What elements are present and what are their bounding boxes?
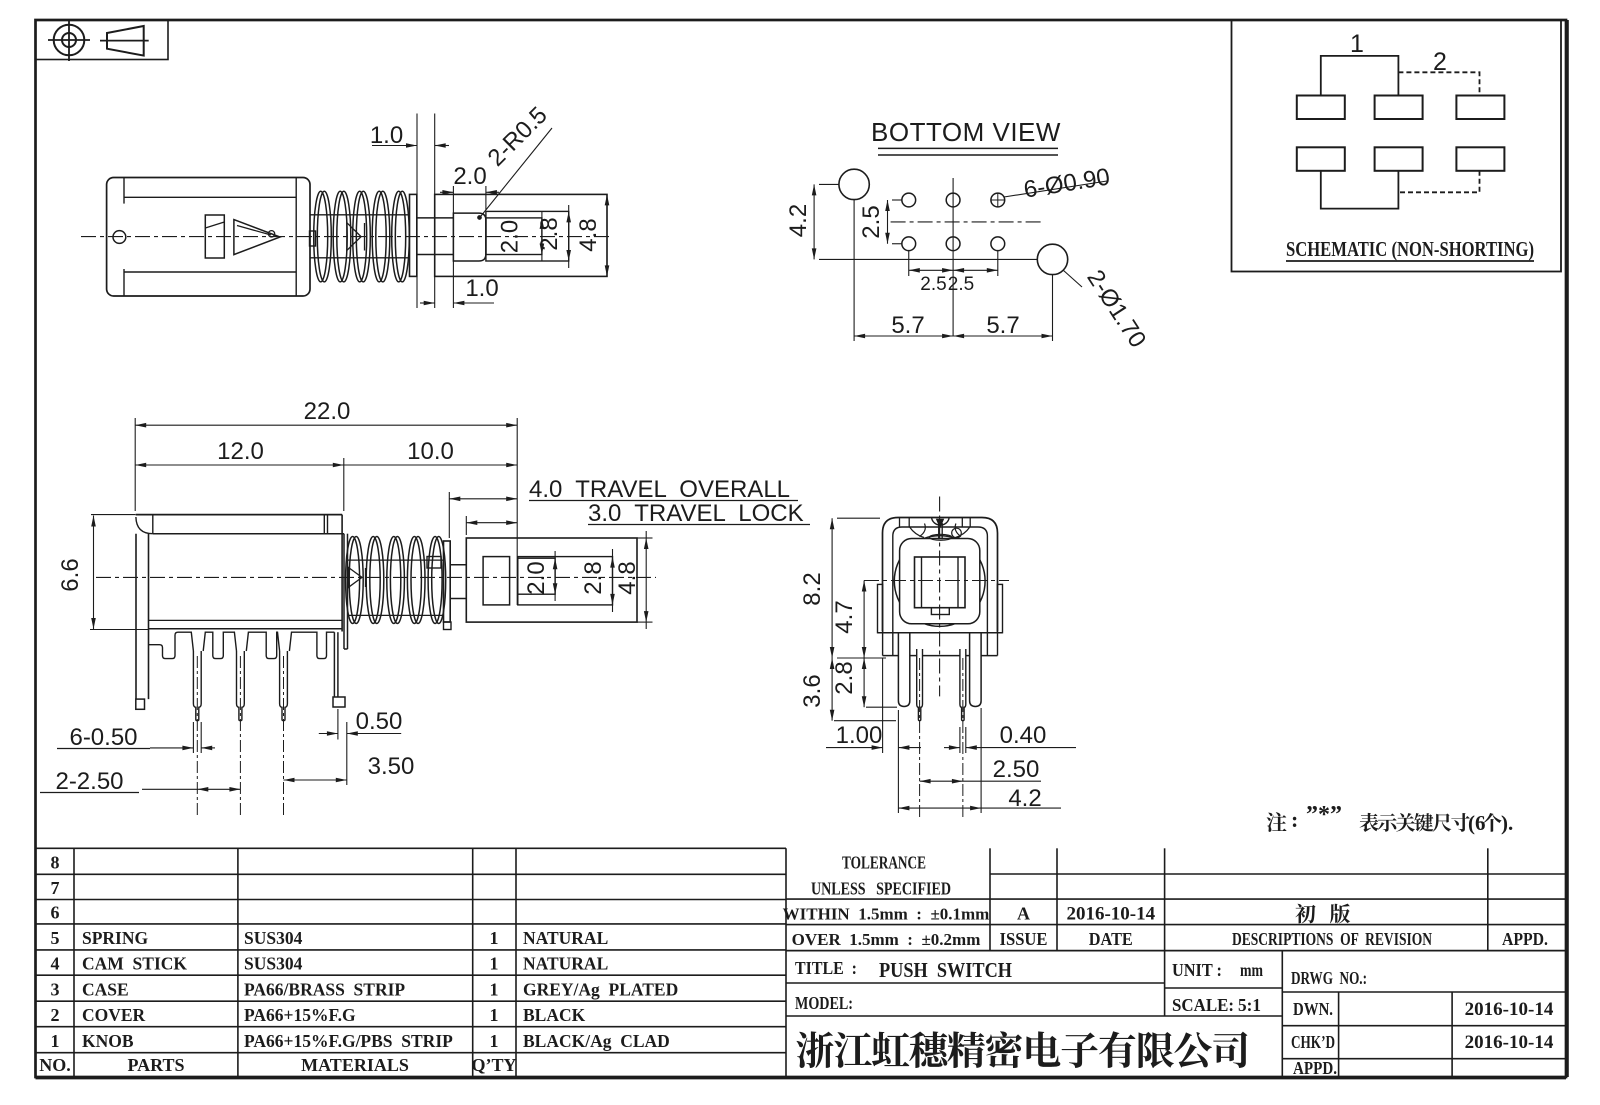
svg-text:Q’TY: Q’TY — [472, 1055, 517, 1075]
svg-text:8: 8 — [51, 853, 60, 873]
front view: knob bottom tab — [931, 608, 949, 615]
svg-text:NO.: NO. — [39, 1055, 71, 1075]
top view: knob tip (rounded) — [453, 213, 486, 261]
svg-text:3.0 TRAVEL LOCK: 3.0 TRAVEL LOCK — [588, 500, 804, 527]
top view: knob slot rect 2.8 — [486, 211, 569, 261]
front view: left leg — [898, 633, 909, 707]
front view: left pin — [917, 649, 923, 721]
main view: spring coils — [346, 537, 360, 624]
svg-text:22.0: 22.0 — [304, 398, 351, 425]
svg-text:4.8: 4.8 — [614, 561, 641, 594]
front view: base plate — [878, 632, 1003, 634]
front view: spring coil circle — [894, 536, 985, 627]
svg-text:GREY/Ag PLATED: GREY/Ag PLATED — [523, 980, 678, 1000]
svg-text:2.8: 2.8 — [536, 217, 563, 250]
svg-text:7: 7 — [51, 878, 60, 898]
svg-text:APPD.: APPD. — [1502, 929, 1548, 949]
svg-text:1: 1 — [490, 1031, 499, 1051]
front view: cam washer disc — [929, 534, 951, 540]
svg-text:1: 1 — [490, 928, 499, 948]
svg-text:PA66+15%F.G/PBS STRIP: PA66+15%F.G/PBS STRIP — [244, 1031, 453, 1051]
svg-text:NATURAL: NATURAL — [523, 954, 608, 974]
schematic bottom dashed link — [1398, 171, 1479, 193]
top view: left hole circle — [113, 231, 126, 244]
main view: left metal bracket — [135, 534, 137, 699]
svg-text:PARTS: PARTS — [127, 1055, 184, 1075]
svg-text:1.00: 1.00 — [836, 722, 883, 749]
top view: spring seat stub — [310, 231, 316, 246]
svg-text:2016-10-14: 2016-10-14 — [1465, 1032, 1554, 1053]
svg-text:2.5: 2.5 — [948, 274, 974, 295]
leader 6-dia0.90 — [1004, 181, 1107, 197]
svg-text:6.6: 6.6 — [57, 558, 84, 591]
main view: center line — [96, 576, 656, 578]
svg-text:3.6: 3.6 — [799, 674, 826, 707]
svg-text:0.50: 0.50 — [356, 708, 403, 735]
main view: right wall below — [333, 632, 335, 697]
svg-text:5.7: 5.7 — [891, 312, 924, 339]
svg-text:4.2: 4.2 — [785, 204, 812, 237]
main view: cam stick shaft — [347, 559, 444, 561]
leader 2-dia1.70 — [1063, 270, 1082, 287]
svg-text:2-2.50: 2-2.50 — [55, 768, 123, 795]
svg-text:6-Ø0.90: 6-Ø0.90 — [1022, 163, 1112, 203]
bottom view vertical line — [952, 178, 954, 336]
front view: top inner arcs — [909, 527, 924, 538]
top view: cover inner lines — [124, 196, 296, 198]
note: key dimension remark — [1267, 812, 1287, 832]
front view: cam side circle — [952, 528, 962, 538]
svg-text:4.7: 4.7 — [831, 600, 858, 633]
main view: case bottom lines — [149, 619, 342, 621]
svg-text:DWN.: DWN. — [1293, 999, 1333, 1019]
svg-text:3.50: 3.50 — [368, 753, 415, 780]
front view: inner cover line — [893, 527, 988, 631]
svg-text:SCALE:: SCALE: — [1172, 995, 1234, 1015]
schematic view box — [1232, 20, 1562, 272]
svg-text:6-0.50: 6-0.50 — [69, 724, 137, 751]
schematic wire 2 (dashed link) — [1398, 72, 1479, 95]
top view: plunger flange — [410, 194, 417, 276]
svg-text:UNLESS SPECIFIED: UNLESS SPECIFIED — [811, 879, 951, 899]
schematic bottom solid link — [1321, 171, 1399, 209]
top view: switch body outline — [107, 178, 310, 297]
svg-text:1: 1 — [490, 980, 499, 1000]
svg-text:2.0: 2.0 — [523, 561, 550, 594]
svg-text:2.8: 2.8 — [831, 661, 858, 694]
svg-text:PUSH SWITCH: PUSH SWITCH — [879, 958, 1012, 982]
svg-text:CAM STICK: CAM STICK — [82, 954, 187, 974]
svg-text:CASE: CASE — [82, 980, 129, 1000]
main view: cover top — [136, 514, 342, 516]
svg-text:KNOB: KNOB — [82, 1031, 134, 1051]
top view: knob slot rect 2.0 — [486, 218, 542, 255]
top view: spring coils — [314, 191, 328, 282]
top view: center line — [81, 236, 610, 238]
svg-text:2016-10-14: 2016-10-14 — [1066, 904, 1155, 925]
bottom view: big hole top-left — [839, 169, 869, 199]
top view: cam stick shaft through spring — [311, 214, 410, 216]
svg-text:1: 1 — [490, 1005, 499, 1025]
svg-text:NATURAL: NATURAL — [523, 928, 608, 948]
svg-text:2.8: 2.8 — [580, 561, 607, 594]
svg-text:DATE: DATE — [1089, 929, 1133, 949]
svg-text:TOLERANCE: TOLERANCE — [842, 853, 926, 873]
main view: case bottom skirt profile — [149, 632, 194, 658]
main view: knob slot rect 2.8 — [518, 557, 613, 605]
svg-text:6: 6 — [51, 903, 60, 923]
svg-text:SCHEMATIC (NON-SHORTING): SCHEMATIC (NON-SHORTING) — [1286, 237, 1534, 261]
svg-text:2.0: 2.0 — [497, 220, 524, 253]
svg-text:5.7: 5.7 — [986, 312, 1019, 339]
front view: knob square — [915, 557, 966, 608]
top view: cam groove triangle — [234, 220, 280, 255]
svg-text:SPRING: SPRING — [82, 928, 149, 948]
crosshair on top-right hole — [991, 199, 1005, 201]
main view: plunger shaft — [450, 564, 466, 566]
revision description (first edition) — [1295, 904, 1315, 924]
svg-text:WITHIN 1.5mm : ±0.1mm: WITHIN 1.5mm : ±0.1mm — [783, 905, 990, 924]
svg-text:5:1: 5:1 — [1238, 995, 1261, 1015]
svg-text:2-Ø1.70: 2-Ø1.70 — [1081, 265, 1151, 352]
svg-text:BLACK: BLACK — [523, 1005, 586, 1025]
svg-text:1.0: 1.0 — [465, 275, 498, 302]
title block grid — [990, 873, 1566, 875]
svg-text:MODEL:: MODEL: — [795, 993, 853, 1013]
svg-text:PA66+15%F.G: PA66+15%F.G — [244, 1005, 356, 1025]
svg-text:2.0: 2.0 — [453, 163, 486, 190]
svg-text:4: 4 — [51, 954, 60, 974]
front view: cam stick dome (bowl) — [932, 518, 950, 525]
main view: cam follower tab — [427, 557, 441, 569]
front view: center lines — [939, 497, 941, 697]
svg-text:1: 1 — [51, 1031, 60, 1051]
projection symbol: target circle — [54, 25, 85, 56]
front view: outer cover — [883, 518, 998, 632]
svg-text:2-R0.5: 2-R0.5 — [483, 102, 553, 172]
svg-text:BOTTOM VIEW: BOTTOM VIEW — [871, 117, 1061, 147]
front view: inner guide rounded square — [900, 539, 980, 624]
svg-text:4.8: 4.8 — [575, 218, 602, 251]
svg-text:TITLE :: TITLE : — [795, 958, 857, 978]
svg-text:4.0 TRAVEL OVERALL: 4.0 TRAVEL OVERALL — [529, 476, 790, 503]
svg-text:5: 5 — [51, 928, 60, 948]
svg-text:2.5: 2.5 — [920, 274, 946, 295]
svg-text:OVER 1.5mm : ±0.2mm: OVER 1.5mm : ±0.2mm — [792, 930, 981, 949]
main view: knob tip rect — [483, 557, 510, 605]
main view: pins (3) — [193, 651, 201, 721]
main view: plunger flange — [444, 541, 451, 622]
svg-text:2.5: 2.5 — [858, 205, 885, 238]
svg-text:3: 3 — [51, 980, 60, 1000]
svg-text:10.0: 10.0 — [407, 438, 454, 465]
svg-text:COVER: COVER — [82, 1005, 146, 1025]
svg-text:2016-10-14: 2016-10-14 — [1465, 999, 1554, 1020]
main view: knob housing shell — [466, 538, 637, 622]
main view: case body right edge — [341, 515, 343, 632]
company name — [796, 1031, 833, 1068]
front view: right pin — [960, 649, 966, 721]
svg-text:SUS304: SUS304 — [244, 928, 303, 948]
front view: wings — [878, 584, 883, 632]
svg-text:12.0: 12.0 — [217, 438, 264, 465]
top view: cam pocket — [205, 215, 224, 258]
front view: right leg — [970, 633, 982, 707]
svg-text:APPD.: APPD. — [1293, 1058, 1337, 1078]
bottom view: 6 pin holes — [902, 193, 916, 207]
top view: knob housing shell — [435, 194, 607, 276]
bottom view center line — [891, 221, 1041, 223]
svg-text:1: 1 — [1350, 30, 1364, 58]
svg-text:CHK’D: CHK’D — [1291, 1032, 1335, 1052]
top view: plunger shaft — [417, 217, 454, 219]
schematic contact pads (6) — [1297, 96, 1345, 120]
svg-text:2: 2 — [51, 1005, 60, 1025]
svg-text:SUS304: SUS304 — [244, 954, 303, 974]
first-angle projection symbol box — [36, 20, 169, 60]
svg-text:”*”: ”*” — [1306, 802, 1342, 828]
svg-text:0.40: 0.40 — [1000, 722, 1047, 749]
svg-text:1: 1 — [490, 954, 499, 974]
front view: top notches — [899, 518, 901, 527]
svg-text::: : — [1291, 807, 1298, 832]
svg-text:MATERIALS: MATERIALS — [301, 1055, 409, 1075]
main view: extension line right (22.0 / knob) — [516, 418, 518, 605]
svg-text:8.2: 8.2 — [799, 572, 826, 605]
svg-text:PA66/BRASS STRIP: PA66/BRASS STRIP — [244, 980, 405, 1000]
svg-text:UNIT :: UNIT : — [1172, 960, 1222, 980]
svg-text:DRWG NO.:: DRWG NO.: — [1291, 968, 1367, 988]
schematic wire 1 (solid link) — [1321, 56, 1399, 96]
parts table grid — [36, 847, 787, 849]
svg-text:DESCRIPTIONS OF REVISION: DESCRIPTIONS OF REVISION — [1232, 929, 1432, 949]
front view: pin center dash lines — [919, 658, 921, 817]
svg-text:).: ). — [1501, 811, 1513, 835]
svg-text:A: A — [1017, 904, 1030, 924]
projection symbol: cone — [107, 26, 144, 56]
svg-text:2: 2 — [1433, 48, 1447, 76]
main view: knob slot rect 2.0 — [518, 558, 555, 594]
svg-text:ISSUE: ISSUE — [1000, 929, 1048, 949]
leader 2-R0.5 — [481, 128, 552, 216]
bottom view: big hole bottom-right — [1037, 244, 1067, 274]
svg-text:mm: mm — [1240, 960, 1263, 980]
svg-text:2.50: 2.50 — [993, 756, 1040, 783]
svg-text:BLACK/Ag CLAD: BLACK/Ag CLAD — [523, 1031, 670, 1051]
